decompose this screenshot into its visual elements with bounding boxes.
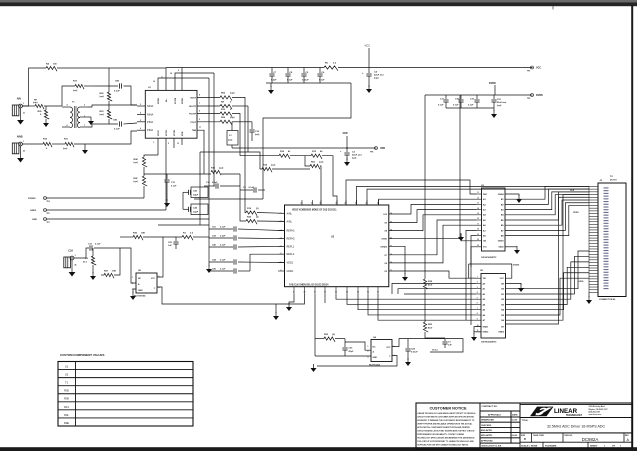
svg-text:GND3: GND3 [498,332,505,334]
svg-text:8: 8 [477,313,478,315]
svg-text:REFL1: REFL1 [287,245,295,248]
U5 output staircases to connector [506,251,590,289]
page right border [631,5,633,448]
U2 right pin D5 wire [389,271,476,278]
svg-text:TECHNOLOGY APPLICATIONS ENGINE: TECHNOLOGY APPLICATIONS ENGINEERING FOR … [417,436,475,439]
title block outer frame [416,403,632,448]
capacitor C23 [344,339,346,347]
svg-text:PINA: PINA [147,120,153,124]
svg-text:4: 4 [159,286,160,289]
ground below U5 [473,333,475,337]
svg-text:PERFORMANCE OR RELIABILITY. CO: PERFORMANCE OR RELIABILITY. CONTACT LINE… [417,433,464,436]
LTC logo mark [530,407,554,417]
svg-text:APPROVALS: APPROVALS [488,414,501,417]
U5 VCC to DVDD [495,264,512,278]
DVDD feed wire [494,85,496,95]
svg-text:D10: D10 [384,214,387,216]
svg-text:DVDD: DVDD [513,264,520,266]
svg-text:2: 2 [132,283,133,285]
svg-text:GND1: GND1 [287,270,295,273]
U3 OE pulldown ground [461,234,477,241]
svg-text:TAB CLK SHDN OEL D0 D1: TAB CLK SHDN OEL D0 D1 D2 D3 D4 [289,283,329,286]
capacitor C41 boxed label [191,187,208,198]
U2 top bus elbow D12 to connector [357,186,590,205]
svg-text:U2: U2 [65,373,69,377]
svg-text:GND: GND [32,219,37,221]
svg-text:DVDD: DVDD [382,239,388,241]
U4 output wire [317,356,397,367]
wire GND3 row [47,209,167,211]
svg-text:TITLE:: TITLE: [522,420,529,422]
resistor R18 [423,279,428,289]
svg-text:0.1uF: 0.1uF [220,269,226,271]
wire SENSE row [240,155,279,157]
svg-text:VDD2 VCMSENSE MODE OF D13: VDD2 VCMSENSE MODE OF D13 D12 D11 [292,210,337,212]
svg-text:5: 5 [477,297,478,299]
svg-text:0.1uF: 0.1uF [319,80,325,82]
svg-text:1630 McCarthy Blvd.: 1630 McCarthy Blvd. [589,405,606,408]
U1 output pin stubs [197,96,220,98]
resistor R12 [220,112,232,117]
op-amp U1 LTC6409 box [145,90,197,138]
wire PGND2 row [47,197,145,199]
capacitor CN1 upper [95,85,118,87]
svg-text:LINEAR TECHNOLOGY HAS MADE A B: LINEAR TECHNOLOGY HAS MADE A BEST EFFORT… [417,412,476,415]
svg-text:GND2: GND2 [483,332,490,334]
ground at U4 output loop [313,364,315,368]
svg-text:0.1uF: 0.1uF [220,245,226,247]
size cage dwg row [520,433,632,442]
J3 pin stubs [589,185,598,187]
U5 OE ground right [506,283,522,285]
svg-text:22uF tant: 22uF tant [497,101,507,104]
svg-text:PGND2: PGND2 [28,198,36,200]
U6 GND wire [133,289,136,293]
svg-text:20: 20 [477,239,479,241]
svg-text:(opt): (opt) [228,139,233,142]
wire R13 to U2 top pin [322,156,337,205]
svg-text:R14: R14 [64,405,69,409]
svg-text:(2): (2) [256,217,259,219]
svg-text:0.1uF: 0.1uF [114,91,120,93]
capacitor C41 [175,237,177,241]
svg-text:R0E: R0E [134,159,139,161]
svg-text:16: 16 [477,218,479,220]
svg-text:(opt): (opt) [73,89,78,92]
svg-text:0.1uF: 0.1uF [171,186,177,188]
svg-text:ENG APPR.: ENG APPR. [481,429,493,432]
svg-text:OGND2: OGND2 [380,246,387,248]
resistor R4 [46,66,57,71]
connector J1 AIN [12,105,19,116]
ground at bypass bank [270,83,272,87]
svg-text:www.linear.com: www.linear.com [589,414,602,416]
test point PGND2 [44,197,47,200]
svg-text:POUT: POUT [190,122,196,124]
resistor R0F lower [143,167,145,176]
svg-text:6-3-09: 6-3-09 [512,420,517,422]
DVDD test point [531,94,534,97]
svg-text:11: 11 [477,192,479,194]
svg-text:NINA: NINA [147,104,153,108]
svg-text:GND2: GND2 [499,247,504,249]
U2 right pin D10 wire [389,204,477,214]
DVDD cap bottom rail [446,107,494,109]
T1 center tap ground [88,116,91,118]
wire lower gnd row [158,224,209,226]
svg-text:0.01uF: 0.01uF [302,80,309,82]
wire GND row [47,218,210,220]
bypass capacitor C6 [319,68,321,74]
svg-text:CAGE CODE: CAGE CODE [533,434,545,437]
svg-text:4: 4 [67,104,68,107]
wire bypass to VDD cap bank [263,83,351,199]
svg-text:VCC3: VCC3 [432,350,438,352]
U2 top bus elbow D11 to connector [367,189,589,205]
U1 top pin wires to VCC nest [158,78,209,90]
U2 right pin DVDD wire [389,95,460,239]
svg-text:MODS LAYOUT 12 JUN: MODS LAYOUT 12 JUN [482,445,502,448]
svg-text:HOWEVER, IT REMAINS THE CUSTOM: HOWEVER, IT REMAINS THE CUSTOMER'S RESPO… [417,419,475,422]
resistor R13 [311,154,322,159]
svg-text:0.2uF: 0.2uF [212,182,218,184]
resistor R51 branch [305,156,310,166]
ground at R05 [45,119,47,123]
svg-text:0.1uF: 0.1uF [468,105,474,107]
svg-text:DIR: DIR [483,194,487,196]
svg-text:GND: GND [138,290,143,292]
T1 secondary top to U1 NINA [88,105,137,107]
svg-text:18: 18 [477,229,479,231]
capacitor C10 [251,122,253,129]
svg-text:GND1: GND1 [483,327,490,329]
svg-text:VCC: VCC [536,67,541,70]
wire J1 to R4 [22,68,46,106]
wire VCM row to VDD test point [232,147,376,149]
svg-text:R0E: R0E [64,421,69,425]
U5 T/E riser from DVDD rail [469,264,476,278]
resistor R05 output [220,96,232,101]
capacitor C19 [476,95,478,99]
svg-text:(opt): (opt) [63,147,68,150]
resistor R14 branch [200,152,262,169]
svg-text:0.1uF: 0.1uF [114,129,120,131]
svg-text:DATE: DATE [512,414,518,417]
custom component values table [58,362,193,427]
page bottom border bar [0,447,637,451]
resistor R19 to AINL1 [245,148,246,213]
svg-text:GND4: GND4 [498,193,505,196]
ground at cap bank [208,265,210,269]
svg-text:CIRCUIT THAT MEETS CUSTOMER-SU: CIRCUIT THAT MEETS CUSTOMER-SUPPLIED SPE… [417,415,474,418]
U2 top bus elbow D13 [346,180,477,205]
svg-text:TO: TO [610,176,613,178]
svg-text:0.1uF: 0.1uF [287,80,293,82]
svg-text:VCCM: VCCM [175,98,177,104]
U3 A7 input from below [466,230,477,320]
svg-text:SUPPLIED FOR USE WITH LINEAR T: SUPPLIED FOR USE WITH LINEAR TECHNOLOGY … [417,443,469,446]
connector J2 AINb [12,143,19,154]
J3 internal pin name column [604,187,609,188]
U3 VCC pin wire [471,247,482,267]
svg-text:NC: NC [138,278,142,280]
U6 VCC wire [157,237,163,277]
U4 GND row wire [315,355,371,357]
ground stub on AINb net [84,144,86,146]
bypass capacitor C9 [303,68,305,74]
svg-text:0.1uF: 0.1uF [95,244,101,246]
svg-text:5: 5 [199,119,200,121]
svg-text:TP6: TP6 [370,152,373,154]
svg-text:CN1: CN1 [113,120,118,122]
resistor R10 [22,143,43,145]
svg-text:VDD: VDD [343,132,348,135]
svg-text:TP3: TP3 [47,222,50,224]
svg-text:R09: R09 [64,397,69,401]
capacitor C24 [407,339,409,348]
resistor R15 row [144,173,211,175]
U2 right pin D6 wire [389,225,477,263]
wire RF to T1 [44,105,62,107]
capacitor C44 [209,261,233,263]
svg-text:DC982A: DC982A [582,437,599,442]
svg-text:CLK: CLK [570,190,575,192]
svg-text:7: 7 [477,308,478,310]
svg-text:CIRCUIT BOARD LAYOUT MAY SIGNI: CIRCUIT BOARD LAYOUT MAY SIGNIFICANTLY A… [417,429,475,432]
U2 OGND wire and ground [389,246,405,274]
approvals rows [480,417,511,422]
svg-text:TP2: TP2 [527,98,530,100]
resistor R52 [314,294,316,356]
svg-text:Milpitas, CA 95035-7417: Milpitas, CA 95035-7417 [589,408,608,411]
test point GND [44,218,47,221]
VDD test point [375,147,378,150]
customer notice box [416,403,480,450]
svg-text:6-4-09: 6-4-09 [512,434,517,437]
resistor R6 on VCC rail [324,66,338,71]
resistor R0E upper [144,155,158,157]
svg-text:1: 1 [75,255,76,257]
svg-text:R0L: R0L [64,413,69,417]
resistor R2 shunt [92,248,94,256]
svg-text:(opt): (opt) [230,116,235,119]
svg-text:19: 19 [477,234,479,236]
svg-text:CUSTOMER NOTICE: CUSTOMER NOTICE [429,407,467,411]
svg-text:THIS CIRCUIT IS PROPRIETARY TO: THIS CIRCUIT IS PROPRIETARY TO LINEAR TE… [417,440,474,443]
svg-text:APPROVED: APPROVED [481,439,493,442]
inverter U4 box [371,340,392,362]
svg-text:DVDD: DVDD [536,94,543,97]
ground at R2 [92,272,94,276]
wire C13 to U6 input [120,248,136,283]
svg-text:16: 16 [153,81,155,83]
svg-text:1: 1 [23,141,24,143]
svg-text:9: 9 [178,70,179,72]
bypass capacitor C8 [287,68,289,74]
svg-text:14: 14 [170,72,172,75]
output wires to vertical pair [232,97,245,148]
svg-text:DC718: DC718 [610,180,617,182]
svg-text:(2): (2) [256,208,259,210]
capacitor C51 REFH1 [209,228,233,230]
resistor R20 to AINL2 [240,174,246,221]
ADC U2 box [285,205,389,287]
bypass capacitor C7 [271,68,273,74]
wire C41 C42 common [182,192,184,209]
VCC rail [166,67,324,69]
svg-text:TP1: TP1 [527,71,530,73]
capacitor C43 REFH2 [209,237,233,239]
U5 B6 long riser to connector [506,195,590,321]
DVDD vertical distribution [424,95,426,279]
wire R4 to U1 INP [57,67,166,69]
U2 right pin D7 wire [389,220,477,255]
svg-text:LVDS: LVDS [578,281,584,283]
svg-text:VDDB: VDDB [182,98,184,104]
resistor R26 [120,236,133,238]
buffer U3 74VHC245 box [482,188,506,251]
capacitor C18 [460,95,462,99]
svg-text:3: 3 [477,287,478,289]
capacitor C13 [74,248,89,258]
svg-text:D8: D8 [385,231,387,233]
svg-text:J1: J1 [23,113,25,115]
svg-text:(opt): (opt) [497,104,502,107]
svg-text:REFH2: REFH2 [287,238,296,241]
U5 GND pins join [474,327,481,334]
svg-text:6: 6 [477,303,478,305]
feedback resistor R17 over T1 [62,86,75,106]
svg-text:3: 3 [84,105,85,107]
T1 secondary bottom to CN1 lower [88,124,92,127]
U6 output wire to CLK net [157,287,276,304]
edge connector J3 box [598,183,626,297]
CLK net to U2 [276,294,305,304]
svg-text:10K: 10K [141,233,145,235]
resistor R22 [107,92,112,101]
capacitor C17 [445,95,447,99]
resistor R1 [182,235,193,240]
capacitor C1 [444,339,446,341]
top edge artifact line [552,6,555,10]
svg-text:CLK: CLK [68,250,73,253]
capacitor C40 REFL1 [209,246,233,248]
U2 top pin stubs [301,200,303,205]
svg-text:POUTF: POUTF [189,114,197,116]
U3 A8 input from below [471,236,477,325]
ground at C24 [407,358,409,362]
resistor R53 [423,322,428,332]
svg-text:12: 12 [477,197,479,199]
svg-text:22uF tant: 22uF tant [374,74,384,77]
LTC logo cell [520,405,632,418]
svg-text:12pF: 12pF [193,212,199,214]
svg-text:AINL: AINL [287,212,293,215]
svg-text:32.5MHz ADC Driver 16-MSPS ADC: 32.5MHz ADC Driver 16-MSPS ADC [547,424,606,428]
ground at DVDD caps [493,108,495,111]
bypass bottom rail [266,82,351,84]
svg-text:(opt): (opt) [134,180,139,183]
wire to U4 A input [345,342,371,350]
U3 GND4 top right ground [505,194,519,196]
svg-text:0.1uF: 0.1uF [249,187,255,189]
svg-text:(2): (2) [332,334,335,336]
svg-text:0.01uF: 0.01uF [411,352,418,354]
svg-text:(408) 432-1900: (408) 432-1900 [589,410,601,413]
svg-text:VCCB: VCCB [166,130,168,136]
title block note cell [480,443,520,448]
svg-text:LINEAR: LINEAR [554,408,578,415]
VCC test point [531,66,534,69]
svg-text:13: 13 [477,203,479,205]
svg-text:CHECKED: CHECKED [481,425,492,427]
wire R23 to PINA row [108,119,110,124]
contract no cell [480,403,520,411]
U3 left pin stubs and numbers [477,193,482,195]
resistor R8 [220,104,232,109]
resistor R27 [101,274,104,276]
svg-text:J2: J2 [23,151,25,153]
U3 output staircases to connector [505,186,589,199]
J3 left vertical tie [588,186,590,292]
wire R11 to U1 PINA [74,131,137,144]
resistor R16 [279,154,290,159]
svg-text:6: 6 [199,111,200,113]
svg-text:(opt): (opt) [134,161,139,164]
inverter U6 [136,273,157,293]
svg-text:VCC: VCC [386,347,391,349]
svg-text:74VHC245MTC: 74VHC245MTC [481,340,497,343]
svg-text:0.1uF: 0.1uF [220,227,226,229]
svg-text:D5: D5 [385,271,387,273]
svg-text:15: 15 [477,213,479,215]
U4 VCC wire [392,339,445,347]
U2 OEL stub wire [324,294,326,303]
svg-text:DVDD: DVDD [489,82,496,85]
svg-text:(opt): (opt) [100,113,105,116]
buffer U5 74VHC245 box [481,274,506,339]
T1 pin wires [62,106,70,108]
svg-text:GND3: GND3 [30,210,37,212]
svg-text:R05: R05 [64,389,69,393]
capacitor C45 [209,270,233,272]
wire R22 to R23 [108,101,110,110]
capacitor C13a and ground [166,174,168,179]
connector J4 CLK [64,257,71,268]
U1 TAB wire down [197,130,204,174]
svg-text:VDD: VDD [380,147,385,150]
svg-text:D6: D6 [385,263,387,265]
svg-text:MFG APPR.: MFG APPR. [481,434,493,437]
svg-text:1: 1 [477,276,478,278]
U5 input bus wires from left [392,283,476,294]
svg-text:12pF: 12pF [193,195,199,197]
resistor R05 shunt [45,106,47,110]
svg-text:REFH1: REFH1 [287,230,296,233]
U2 bottom pin stubs [293,287,295,294]
capacitor C21 tant [493,95,495,99]
ground below J3 [588,293,590,298]
svg-text:(opt): (opt) [219,167,224,170]
svg-text:VCC: VCC [500,278,505,280]
svg-text:TAB: TAB [192,129,197,132]
capacitor CN1 lower [92,123,118,125]
capacitor C3 [240,189,253,191]
svg-text:2: 2 [477,282,478,284]
U2 top bus elbow OF [379,199,477,205]
U3 GND2 ground [505,246,517,248]
U2 right pin D9 wire [389,210,477,223]
